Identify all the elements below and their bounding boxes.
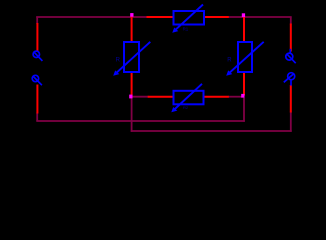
wire lowest routing rail y=131 (node C to T4) bbox=[131, 130, 292, 132]
svg-text:R: R bbox=[116, 57, 121, 63]
label R2 ref bbox=[116, 57, 121, 63]
junction node D dot bbox=[241, 94, 244, 98]
wire right bottom corner maroon bbox=[290, 112, 292, 132]
label R1 value bbox=[183, 27, 189, 32]
wire red right corner down to T3 bbox=[290, 24, 292, 52]
wire red T2 down bbox=[36, 85, 38, 114]
label R3 ref bbox=[227, 58, 232, 64]
svg-text:R: R bbox=[227, 58, 232, 64]
wire red R3 bottom to node D bbox=[243, 73, 245, 96]
wire left top corner drop bbox=[36, 17, 38, 25]
terminal T4 (right lower) bbox=[284, 73, 295, 86]
wire top rail maroon left segment (node A to terminal T1) bbox=[36, 16, 147, 18]
svg-text:R1: R1 bbox=[183, 27, 189, 32]
junction node A dot bbox=[130, 13, 133, 17]
terminal T1 (left upper) bbox=[33, 51, 42, 61]
wire right top corner drop bbox=[290, 17, 292, 25]
wire red node A down to R2 top bbox=[131, 17, 133, 43]
rheostat R3 body (right) bbox=[226, 42, 264, 76]
wire red T4 down bbox=[290, 85, 292, 113]
wire maroon stub node C to R4 left bbox=[131, 96, 149, 98]
junction node C dot bbox=[129, 95, 132, 99]
label R4 value bbox=[183, 105, 189, 110]
wire maroon stub R4 right to node D bbox=[228, 96, 243, 98]
wire red R4 right segment bbox=[205, 96, 229, 98]
terminal T3 (right upper) bbox=[286, 49, 296, 63]
wire red node A to R1 left bbox=[147, 16, 175, 18]
rheostat R2 body (left) bbox=[113, 42, 150, 76]
wire bottom-left corner maroon bbox=[36, 113, 38, 122]
svg-text:R2: R2 bbox=[183, 105, 189, 110]
wire lower routing rail y=121 (T2 to node D) bbox=[36, 120, 245, 122]
wire red R2 bottom to node C bbox=[131, 73, 133, 96]
wire node C drop to y=131 bbox=[131, 98, 133, 132]
wire red node B down to R3 top bbox=[243, 17, 245, 43]
wire red R1 right to node B bbox=[205, 16, 229, 18]
wire node D drop to y=121 bbox=[243, 98, 245, 122]
junction node B dot bbox=[242, 13, 245, 17]
wire red T1 up bbox=[36, 23, 38, 51]
rheostat R4 body (bottom) bbox=[171, 84, 203, 113]
wire top rail maroon right segment (node B to right corner) bbox=[228, 16, 292, 18]
rheostat R1 body (top) bbox=[172, 5, 204, 33]
terminal T2 (left lower) bbox=[32, 75, 42, 85]
wire red node C to R4 left bbox=[148, 96, 174, 98]
